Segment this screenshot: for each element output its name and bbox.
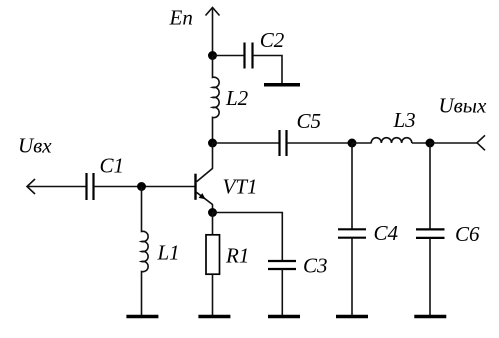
wire node to C4 <box>351 143 353 229</box>
svg-text:C3: C3 <box>303 253 328 277</box>
capacitor C6 <box>416 229 445 238</box>
wire C3 to ground <box>281 269 283 315</box>
svg-text:R1: R1 <box>225 244 249 268</box>
inductor L1 <box>142 187 149 316</box>
capacitor C1 <box>87 173 94 200</box>
power arrow En <box>206 8 220 16</box>
svg-text:VT1: VT1 <box>223 175 258 199</box>
wire C6 to ground <box>429 238 431 315</box>
node C6 junction <box>426 139 435 148</box>
ground under L1 <box>126 315 158 319</box>
svg-text:C5: C5 <box>297 109 322 133</box>
wire C4 to ground <box>351 238 353 315</box>
svg-text:L1: L1 <box>157 241 180 265</box>
capacitor C4 <box>338 229 366 237</box>
node En/L2/C2 junction <box>208 51 217 60</box>
wire En vertical <box>212 8 214 56</box>
ground under C4 <box>336 315 368 319</box>
wire node to C6 <box>429 143 431 229</box>
svg-text:Uвых: Uвых <box>439 94 488 118</box>
output terminal arrow <box>477 135 485 150</box>
svg-text:Uвх: Uвх <box>18 134 52 158</box>
wire collector to C5 <box>213 142 280 144</box>
ground under R1 <box>198 315 230 319</box>
transistor VT1 <box>196 143 213 213</box>
ground under C3 <box>268 315 300 319</box>
wire emitter to C3 <box>213 213 283 261</box>
ground under C2 <box>264 83 300 87</box>
node C4 junction <box>348 139 357 148</box>
inductor L3 <box>371 138 412 143</box>
wire C1 to base <box>94 186 195 188</box>
svg-text:C2: C2 <box>260 28 285 52</box>
wire C5 to node <box>287 142 352 144</box>
input terminal arrow <box>27 179 35 194</box>
node collector junction <box>208 139 217 148</box>
wire node to L3 <box>352 142 372 144</box>
wire input to C1 <box>27 186 86 188</box>
svg-text:L3: L3 <box>393 108 416 132</box>
svg-text:C6: C6 <box>455 222 480 246</box>
wire emitter to R1 <box>212 213 214 235</box>
node L1 junction <box>137 182 146 191</box>
wire node to C2 <box>213 55 245 57</box>
ground under C6 <box>414 315 446 319</box>
wire node to output <box>430 142 477 144</box>
capacitor C5 <box>280 130 287 156</box>
wire C2 to ground <box>253 56 282 84</box>
inductor L2 <box>213 56 220 144</box>
node emitter junction <box>208 208 217 217</box>
svg-text:C4: C4 <box>374 221 399 245</box>
svg-text:C1: C1 <box>100 153 125 177</box>
wire R1 to ground <box>212 274 214 315</box>
resistor R1 <box>206 235 220 274</box>
wire L3 to node <box>412 142 430 144</box>
capacitor C2 <box>245 43 253 69</box>
capacitor C3 <box>268 261 296 269</box>
svg-text:L2: L2 <box>225 86 249 110</box>
svg-text:En: En <box>169 6 193 30</box>
